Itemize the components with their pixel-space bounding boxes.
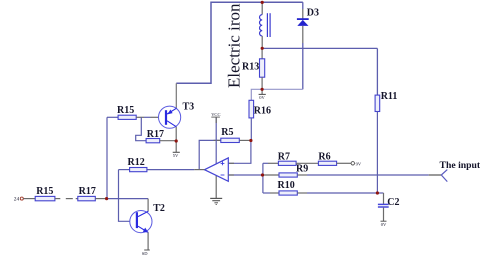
svg-text:R11: R11: [381, 91, 398, 102]
svg-text:SD: SD: [142, 251, 149, 256]
svg-text:R13: R13: [242, 62, 259, 73]
svg-text:R16: R16: [254, 106, 271, 117]
svg-text:0V: 0V: [259, 95, 265, 100]
svg-text:R12: R12: [128, 157, 145, 168]
svg-text:T3: T3: [183, 102, 195, 113]
svg-text:Electric iron: Electric iron: [225, 3, 244, 88]
svg-text:R7: R7: [278, 151, 290, 162]
svg-text:D3: D3: [307, 7, 319, 18]
svg-text:24: 24: [14, 197, 20, 203]
svg-text:R5: R5: [221, 127, 233, 138]
svg-text:R9: R9: [296, 164, 308, 175]
svg-text:R17: R17: [147, 129, 164, 140]
svg-text:R6: R6: [318, 151, 330, 162]
svg-text:5V: 5V: [173, 153, 179, 158]
svg-text:R17: R17: [79, 186, 96, 197]
svg-text:R15: R15: [117, 105, 134, 116]
svg-text:T2: T2: [153, 203, 165, 214]
svg-text:The input: The input: [440, 160, 480, 171]
svg-text:R10: R10: [278, 180, 295, 191]
svg-text:0V: 0V: [381, 222, 387, 227]
svg-text:C2: C2: [387, 197, 399, 208]
svg-text:VCC: VCC: [211, 112, 220, 117]
svg-text:R15: R15: [36, 186, 53, 197]
svg-text:9V: 9V: [356, 162, 362, 167]
